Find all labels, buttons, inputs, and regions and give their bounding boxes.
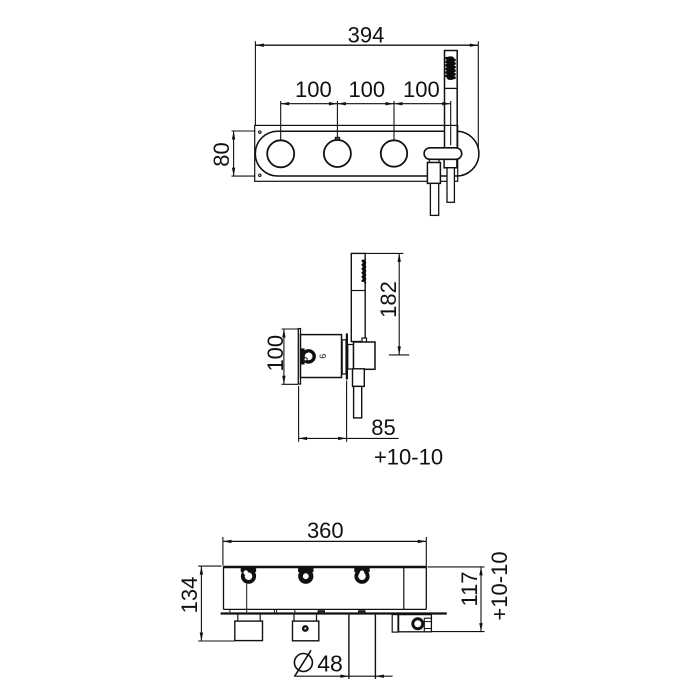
hose (side) <box>354 386 362 418</box>
cartridge nut (bold ring) <box>303 351 314 362</box>
ext line bottom <box>389 354 409 356</box>
dim 394 line <box>255 44 478 46</box>
dim 100 chain line <box>281 103 451 105</box>
shower head knurl face <box>445 56 456 80</box>
rim marking 1 <box>318 611 325 614</box>
svg-text:+10-10: +10-10 <box>487 551 512 620</box>
screw 3 cap <box>355 568 369 572</box>
knob 3 <box>381 140 407 166</box>
svg-text:48: 48 <box>317 650 343 676</box>
ext line top <box>365 252 403 254</box>
dim line <box>299 437 399 439</box>
rim tabs <box>229 609 231 612</box>
block 1 neck <box>237 615 239 622</box>
screw 2 inner ring <box>302 573 309 580</box>
ext line left <box>222 537 224 566</box>
ext line bottom <box>282 383 299 385</box>
svg-text:117: 117 <box>457 571 482 606</box>
hand shower holder bar <box>424 148 462 160</box>
hand shower wand (side) <box>351 253 365 341</box>
front view: mixer plate <box>255 22 478 151</box>
rim marking 2 <box>359 611 366 614</box>
water outlet elbow neck <box>429 159 439 162</box>
screw 1 highlight <box>244 571 248 575</box>
holder bracket lines <box>423 618 425 632</box>
plate edge (bold bar) <box>346 334 348 380</box>
centre line from screw1 <box>246 584 248 613</box>
dim line <box>223 540 426 542</box>
dim 85 <box>299 381 443 470</box>
ext line top <box>428 566 485 568</box>
shower head / handle junction <box>445 87 458 89</box>
svg-text:394: 394 <box>348 22 385 47</box>
knob 2 <box>324 140 351 167</box>
hose connector block <box>444 159 457 168</box>
dim line <box>200 566 202 641</box>
ext line bottom <box>432 631 485 633</box>
dim 182 <box>365 253 409 355</box>
water outlet tube <box>430 183 438 215</box>
svg-text:6: 6 <box>318 354 328 359</box>
svg-text:80: 80 <box>209 142 234 166</box>
valve body (side) <box>301 335 342 378</box>
cartridge bar <box>301 349 304 364</box>
hand shower handle (front) <box>445 51 458 148</box>
svg-text:100: 100 <box>348 77 385 102</box>
ext line hand shower <box>450 101 452 145</box>
ext line top <box>232 130 256 132</box>
svg-text:134: 134 <box>177 577 202 614</box>
screw 2 ring <box>300 571 311 582</box>
svg-text:182: 182 <box>376 281 401 318</box>
box inner wall <box>403 567 405 609</box>
holder body (bottom) <box>399 615 432 632</box>
dim line <box>480 567 482 632</box>
screw top-left <box>259 131 261 133</box>
wall plate (side) <box>298 329 300 384</box>
ext line knob1 <box>280 101 282 140</box>
svg-text:360: 360 <box>307 518 344 543</box>
block 2 neck <box>293 615 295 622</box>
ext line bottom <box>198 640 235 642</box>
box bottom edge <box>224 608 427 610</box>
box right edge <box>425 566 427 609</box>
body collar <box>342 340 346 374</box>
svg-text:+10-10: +10-10 <box>374 445 443 470</box>
ext line top <box>198 565 221 567</box>
screw 1 ring <box>243 571 254 582</box>
screw 2 cap <box>299 568 313 572</box>
diameter symbol <box>294 654 312 672</box>
water outlet elbow body <box>427 163 440 184</box>
knob 2 safety button <box>335 137 339 139</box>
wand head junction <box>351 290 365 292</box>
svg-text:85: 85 <box>371 415 395 440</box>
block 2 (diverter) <box>293 621 319 641</box>
dim Ø48 <box>294 650 392 678</box>
holder block (side) <box>354 342 376 369</box>
concealed box outline <box>255 125 458 181</box>
box left edge <box>223 566 225 609</box>
knob 1 <box>267 140 294 167</box>
hose connector (side) <box>353 369 365 387</box>
box top rim (wall face) <box>223 566 426 569</box>
dim 100 (side) <box>263 329 298 384</box>
ext line knob2 <box>336 101 338 137</box>
plate stadium outline <box>255 131 479 176</box>
dim 394 extension line left <box>254 41 256 126</box>
dim line <box>398 253 400 355</box>
holder tab <box>392 615 398 633</box>
hose cross-section (bold circle) <box>413 619 423 629</box>
holder clip <box>362 338 367 343</box>
ext line right <box>425 537 427 566</box>
screw bottom-left <box>259 174 261 176</box>
cartridge screw hole <box>304 358 307 361</box>
dim 80 <box>209 131 255 176</box>
ext line right <box>346 381 348 442</box>
svg-text:100: 100 <box>295 77 332 102</box>
screw 1 cap <box>241 568 255 572</box>
ext line bottom <box>232 175 256 177</box>
dim line <box>283 329 285 384</box>
ext line left <box>298 386 300 442</box>
dim 80 line <box>233 131 235 176</box>
svg-text:100: 100 <box>263 335 288 372</box>
block 1 (handle base) <box>235 621 263 641</box>
screw 3 ring <box>356 571 367 582</box>
block 2 screw dot <box>303 626 307 630</box>
block 3 (spout Ø48) <box>348 615 350 679</box>
holder spacer <box>348 345 354 370</box>
hose tube <box>447 168 454 203</box>
wand spray face hatch <box>361 260 366 284</box>
svg-text:100: 100 <box>403 77 440 102</box>
screw 3 highlight <box>360 571 364 575</box>
dim 360 <box>223 518 426 566</box>
dim 117 <box>428 551 513 631</box>
ext line top <box>282 328 299 330</box>
dim line <box>294 675 392 677</box>
bottom rim plate <box>221 612 447 614</box>
dim 134 <box>177 566 235 641</box>
dims 100/100/100 <box>281 77 451 145</box>
dim 394 extension line right <box>477 41 479 151</box>
ext line knob3 <box>393 101 395 140</box>
